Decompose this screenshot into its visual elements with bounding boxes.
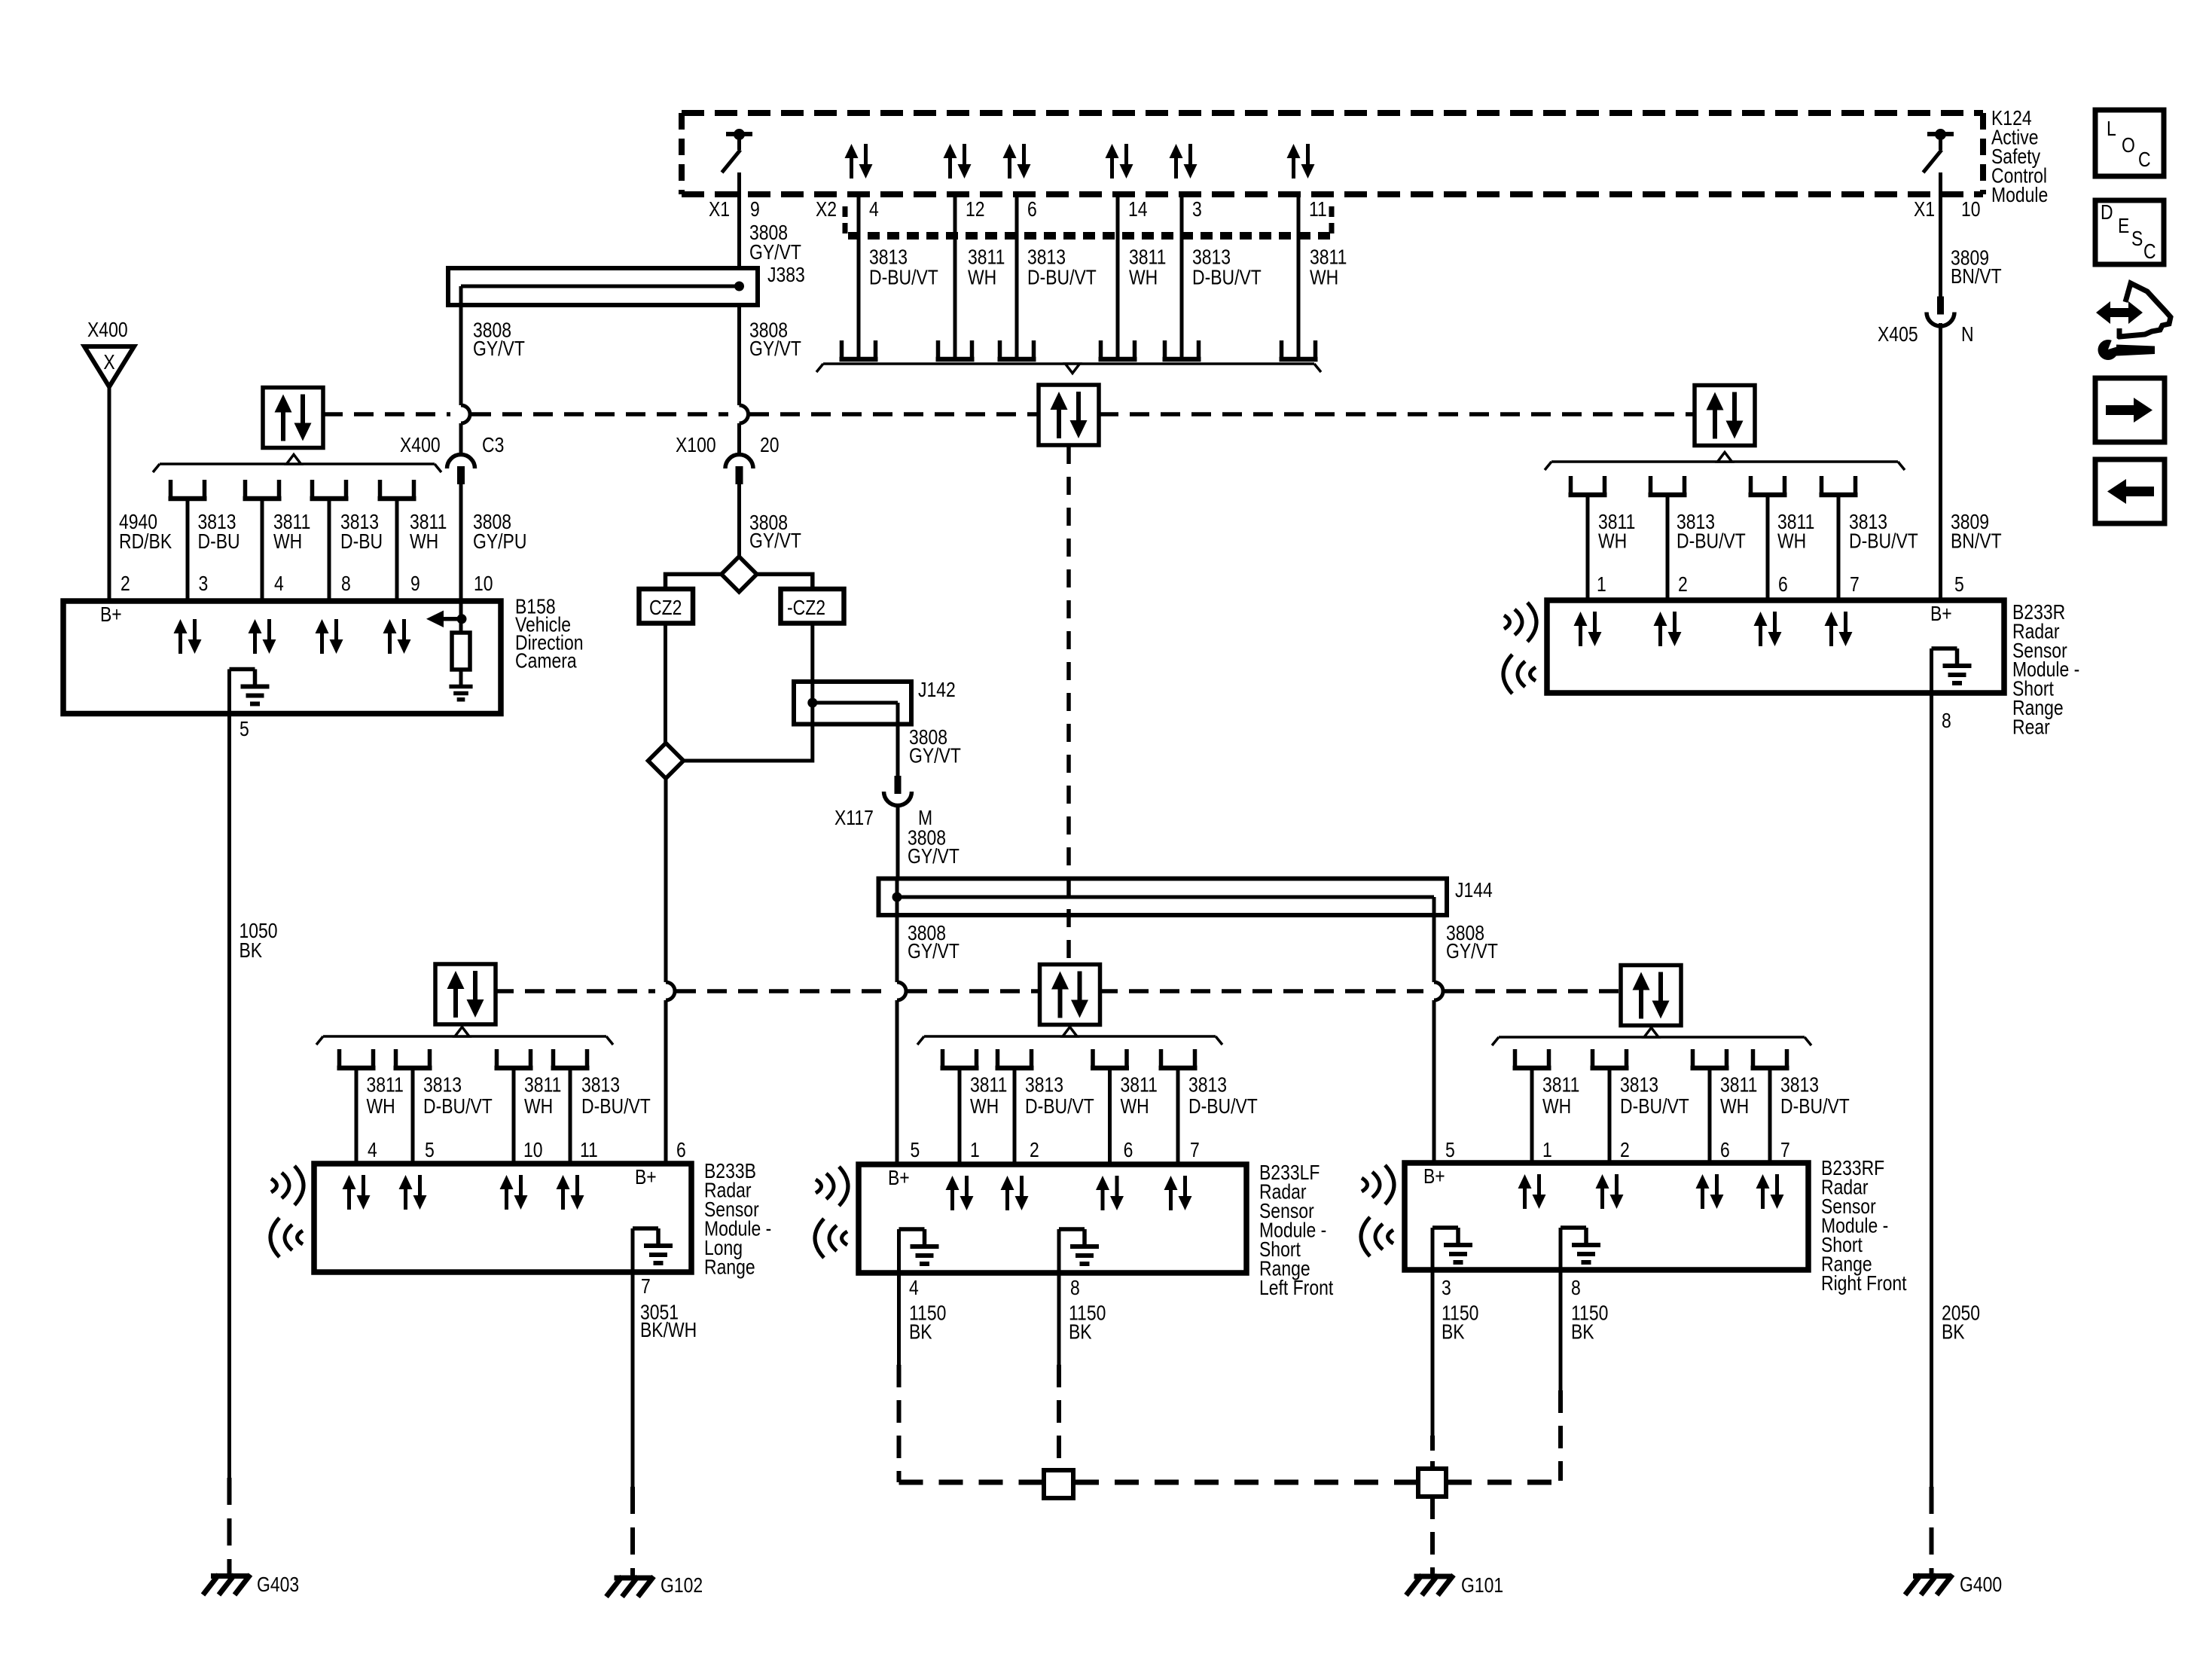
svg-text:GY/VT: GY/VT [909,744,961,767]
svg-text:9: 9 [750,198,760,221]
svg-text:6: 6 [1720,1139,1730,1162]
svg-text:3813: 3813 [1780,1073,1819,1097]
terminal post [1649,476,1653,495]
svg-text:3813: 3813 [1025,1073,1063,1097]
wire to B233LF [958,1068,962,1164]
svg-text:GY/VT: GY/VT [1446,940,1498,963]
wire B233R pin8 2050 BK [1930,693,1933,1487]
svg-text:D-BU/VT: D-BU/VT [423,1095,493,1118]
svg-text:G102: G102 [661,1574,703,1597]
svg-text:3: 3 [1442,1277,1451,1300]
svg-text:GY/VT: GY/VT [749,529,801,553]
svg-text:BK: BK [909,1320,932,1344]
serial data arrows inside K124 [845,144,859,158]
svg-text:7: 7 [1780,1139,1790,1162]
brace B233B harness [323,1035,606,1038]
wire to B233B [512,1068,516,1164]
svg-text:BK: BK [240,939,263,963]
svg-text:J144: J144 [1455,879,1493,902]
terminal post [337,1049,342,1068]
svg-text:Module: Module [1991,184,2048,207]
wire X1-10 to X405 3809 BN/VT [1939,172,1942,297]
svg-text:Rear: Rear [2012,716,2050,739]
svg-text:1: 1 [970,1139,980,1162]
svg-text:WH: WH [1720,1095,1749,1118]
svg-text:3813: 3813 [1620,1073,1658,1097]
svg-text:3811: 3811 [524,1073,561,1097]
splice pack J144 [879,879,1448,916]
wire B233LF pin4 1150 BK [897,1273,901,1365]
terminal post [1751,1049,1756,1068]
B233LF radar waves icon [816,1179,822,1193]
svg-text:E: E [2118,215,2129,238]
svg-text:CZ2: CZ2 [649,597,682,620]
wire to B158 [186,499,190,601]
svg-text:BK: BK [1942,1320,1965,1344]
svg-text:X: X [103,351,114,374]
serial data dashed line top left segment [323,412,450,417]
svg-text:8: 8 [1942,709,1951,733]
svg-text:WH: WH [367,1095,395,1118]
terminal post [936,340,941,359]
svg-text:7: 7 [1850,573,1860,597]
svg-text:D-BU/VT: D-BU/VT [1677,529,1746,553]
serial data symbol box (center, X2 net) [1039,385,1099,445]
svg-text:GY/VT: GY/VT [473,337,525,361]
svg-text:6: 6 [676,1139,686,1162]
svg-text:C: C [2138,148,2151,172]
svg-text:D-BU: D-BU [340,530,383,554]
connector -CZ2 [781,589,844,624]
svg-text:8: 8 [1070,1277,1080,1300]
terminal post [840,340,844,359]
B158 internal ground pin 5 [230,667,255,672]
radar module B233LF box [859,1164,1246,1273]
wire to B233RF [1530,1068,1534,1163]
serial data symbol box B233LF [1040,965,1100,1025]
svg-text:3811: 3811 [367,1073,404,1097]
DESC icon box [2095,200,2164,264]
wire to B158 [261,499,264,601]
svg-text:BK: BK [1571,1320,1594,1344]
brace B158 harness [160,462,435,465]
terminal post [551,1049,556,1068]
svg-text:1: 1 [1597,573,1606,597]
wire to B233RF [1768,1068,1772,1163]
svg-text:D-BU/VT: D-BU/VT [1780,1095,1850,1118]
switch X1-9 inside K124 [726,132,752,136]
svg-text:J383: J383 [767,264,805,287]
svg-text:X117: X117 [834,807,874,830]
B233LF serial arrows [946,1176,960,1190]
svg-text:2: 2 [121,572,130,596]
wire -CZ2 to J142 [810,624,814,682]
B233LF internal ground pin 4 [899,1227,925,1231]
svg-text:B+: B+ [1930,603,1952,626]
terminal post [1099,340,1103,359]
serial data symbol box (left, B158 net) [263,388,323,448]
wire to B233R [1586,495,1590,600]
svg-text:10: 10 [474,572,493,596]
terminal post [941,1049,945,1068]
svg-text:WH: WH [1129,266,1158,289]
wire to B158 [395,499,399,601]
camera module B158 box [63,601,501,714]
connector X100 pin 20 [725,455,753,468]
svg-text:Left Front: Left Front [1259,1277,1333,1300]
svg-text:BN/VT: BN/VT [1951,529,2002,553]
svg-text:B+: B+ [635,1166,657,1189]
svg-text:D-BU/VT: D-BU/VT [1192,266,1262,289]
svg-text:5: 5 [240,718,249,741]
splice diamond lower [648,743,684,779]
radar module B233RF box [1405,1163,1808,1270]
svg-text:WH: WH [1310,266,1338,289]
connector X405 N [1937,297,1944,315]
terminal post [1749,476,1753,495]
radar module B233R box [1547,600,2004,693]
terminal post [243,480,248,499]
svg-text:Range: Range [704,1256,755,1279]
wire from K124 X2 [857,196,861,359]
wire X117 to J144 3808 GY/VT [896,806,900,879]
svg-text:L: L [2107,117,2116,141]
terminal post [1091,1049,1095,1068]
svg-text:GY/PU: GY/PU [473,530,526,554]
svg-text:WH: WH [273,530,302,554]
wire to B233R [1837,495,1841,600]
serial data symbol box B233B [435,964,496,1024]
svg-text:3811: 3811 [1720,1073,1757,1097]
wire to B233R [1766,495,1770,600]
wire J144 right to B233RF 3808 GY/VT [1432,915,1436,982]
svg-text:3: 3 [1192,198,1202,221]
svg-text:D-BU/VT: D-BU/VT [869,266,938,289]
svg-text:3813: 3813 [581,1073,620,1097]
svg-text:GY/VT: GY/VT [749,337,801,361]
brace B233RF harness [1499,1036,1805,1039]
terminal post [169,480,173,499]
B233RF internal ground pin 3 [1432,1225,1458,1230]
B233RF internal ground pin 8 [1561,1225,1586,1230]
B233B serial arrows [343,1175,356,1189]
svg-text:J142: J142 [918,679,956,702]
svg-text:GY/VT: GY/VT [908,845,960,868]
vertical dashed serial line center [1066,446,1071,965]
B233R radar waves icon [1504,615,1510,629]
junction square (LF pin 8) [1044,1470,1073,1498]
svg-text:X1: X1 [709,198,730,221]
svg-text:7: 7 [641,1275,651,1298]
B158 terminating resistor branch [459,601,463,619]
wire to B233B [355,1068,358,1164]
terminal post [1591,1049,1595,1068]
wire B233LF pin8 1150 BK [1057,1273,1061,1365]
wire CZ2 down [664,624,667,744]
wire X1-9 to J383 3808 GY/VT [737,172,741,268]
terminal post [996,1049,1000,1068]
svg-text:D-BU/VT: D-BU/VT [1188,1095,1258,1118]
svg-text:8: 8 [341,572,351,596]
svg-text:WH: WH [1542,1095,1571,1118]
svg-text:GY/VT: GY/VT [908,940,960,963]
wire to B233B [411,1068,415,1164]
wire B233RF pin8 1150 BK [1559,1270,1563,1390]
svg-text:6: 6 [1778,573,1788,597]
serial data dashed line bottom right segment [1098,989,1423,993]
splice pack J142 [794,682,911,725]
wire from K124 X2 [953,196,957,359]
serial data symbol box (right, B233R net) [1695,386,1755,446]
terminal post [1691,1049,1695,1068]
svg-text:G400: G400 [1960,1573,2002,1597]
svg-text:12: 12 [966,198,985,221]
svg-text:X2: X2 [816,198,837,221]
wire B158 pin5 1050 BK [227,714,231,1478]
svg-text:2: 2 [1620,1139,1630,1162]
svg-text:3813: 3813 [1188,1073,1227,1097]
B233R internal ground pin 8 [1932,646,1957,651]
switch X1-10 inside K124 [1927,132,1954,136]
svg-text:9: 9 [410,572,420,596]
terminal post [1163,340,1167,359]
dashed wire to G101 [1430,1497,1435,1574]
svg-text:5: 5 [1954,573,1964,597]
wire from K124 X2 [1297,196,1301,359]
ground G101 [1414,1574,1451,1579]
brace B233LF harness [924,1035,1216,1038]
wire from K124 X2 [1180,196,1184,359]
terminal post [1820,476,1824,495]
svg-text:-CZ2: -CZ2 [787,597,825,620]
radar module B233B box [314,1164,691,1272]
svg-text:3811: 3811 [970,1073,1007,1097]
B158 serial arrows [174,619,188,633]
wire X405 to B233R 3809 BN/VT [1939,323,1942,600]
svg-text:2: 2 [1678,573,1688,597]
svg-text:4: 4 [368,1139,377,1162]
connector X117 M [895,776,902,794]
svg-text:X405: X405 [1878,323,1918,346]
svg-text:3: 3 [199,572,209,596]
wire J142 pass-through to lower diamond [684,725,813,761]
wire to CZ2 [666,574,722,589]
brace B233R harness [1551,460,1898,463]
wire to B233RF [1608,1068,1612,1163]
LOC icon box [2095,110,2164,176]
terminal post [1513,1049,1518,1068]
svg-text:8: 8 [1571,1277,1581,1300]
resistor in B158 [459,619,463,633]
svg-text:RD/BK: RD/BK [119,530,172,554]
svg-text:B+: B+ [888,1167,910,1190]
svg-text:10: 10 [523,1139,543,1162]
ground G403 [211,1573,248,1579]
wire to B158 [328,499,331,601]
svg-text:D-BU/VT: D-BU/VT [1620,1095,1689,1118]
svg-text:B+: B+ [100,603,122,627]
wire J383 to X100 3808 GY/VT [737,305,741,405]
wire antenna to B158 4940 RD/BK [108,387,111,602]
svg-text:D-BU/VT: D-BU/VT [581,1095,651,1118]
wire J383 left drop 3808 GY/VT [459,286,463,405]
connector X400 C3 [447,455,475,468]
module K124 Active Safety Control Module dashed box [682,110,1983,116]
terminal post [1280,340,1284,359]
svg-text:1: 1 [1542,1139,1552,1162]
svg-text:11: 11 [1309,198,1327,221]
svg-text:C: C [2143,240,2156,264]
svg-text:D-BU/VT: D-BU/VT [1027,266,1097,289]
svg-text:10: 10 [1961,198,1981,221]
svg-text:D-BU/VT: D-BU/VT [1849,529,1918,553]
svg-text:4: 4 [909,1277,919,1300]
svg-text:BK: BK [1442,1320,1465,1344]
svg-text:O: O [2122,134,2135,157]
wire C3 to B158 3808 GY/PU [459,484,463,601]
terminal post [998,340,1002,359]
svg-text:N: N [1961,323,1974,346]
wire to -CZ2 [757,574,813,589]
wire X100 to splice 3808 GY/VT [737,484,741,557]
wire J144 left to B233LF 3808 GY/VT [895,915,899,982]
svg-text:3813: 3813 [423,1073,462,1097]
splice diamond upper [722,557,757,592]
wire to B233B [569,1068,572,1164]
ground G400 [1913,1573,1950,1579]
svg-text:2: 2 [1030,1139,1039,1162]
svg-text:BK: BK [1069,1320,1092,1344]
svg-text:4: 4 [274,572,284,596]
serial data symbol box B233RF [1621,966,1681,1026]
wire to B233RF [1708,1068,1712,1163]
ground bus dashed line [899,1480,1043,1485]
vehicle communication icon [2096,301,2143,324]
svg-text:14: 14 [1128,198,1148,221]
svg-text:WH: WH [410,530,438,554]
ground symbol in B158 [449,685,472,689]
svg-text:Camera: Camera [515,649,577,673]
svg-text:3811: 3811 [1121,1073,1158,1097]
svg-text:5: 5 [911,1139,920,1162]
ground G102 [615,1576,651,1581]
brace X2 harness [823,362,1314,365]
terminal post [495,1049,499,1068]
svg-text:WH: WH [970,1095,999,1118]
wire from K124 X2 [1015,196,1019,359]
terminal post [394,1049,398,1068]
svg-text:G101: G101 [1461,1574,1503,1597]
arrow left icon box [2095,459,2165,523]
svg-text:WH: WH [524,1095,553,1118]
wire lower diamond to B233B [664,779,668,983]
wire to B233LF [1013,1068,1017,1164]
svg-text:BN/VT: BN/VT [1951,265,2002,288]
svg-text:6: 6 [1124,1139,1133,1162]
svg-text:WH: WH [968,266,996,289]
svg-text:GY/VT: GY/VT [749,241,801,264]
svg-text:BK/WH: BK/WH [640,1319,697,1342]
svg-text:G403: G403 [257,1573,299,1597]
svg-text:X400: X400 [87,319,128,342]
svg-text:3811: 3811 [1542,1073,1579,1097]
wire B233RF pin3 1150 BK [1431,1270,1435,1437]
svg-text:11: 11 [580,1139,598,1162]
B233LF internal ground pin 8 [1059,1227,1085,1231]
connector CZ2 [639,589,694,624]
B233RF serial arrows [1518,1174,1532,1189]
svg-text:D: D [2101,201,2113,224]
wire to B233LF [1108,1068,1112,1164]
terminal post [1159,1049,1164,1068]
svg-text:D-BU: D-BU [198,530,240,554]
svg-text:5: 5 [425,1139,435,1162]
B233B radar waves icon [271,1179,277,1192]
wire to B233R [1666,495,1670,600]
B233B internal ground pin 7 [633,1226,658,1231]
svg-text:WH: WH [1777,529,1806,553]
svg-text:X400: X400 [400,434,441,457]
svg-text:5: 5 [1445,1139,1455,1162]
serial data dashed line top right segment [1099,412,1695,417]
svg-text:X1: X1 [1914,198,1935,221]
junction square G101 [1418,1469,1446,1497]
B233RF radar waves icon [1362,1178,1368,1192]
svg-text:C3: C3 [482,434,504,457]
wire to B233LF [1176,1068,1180,1164]
serial data dashed line bottom left segment [494,989,655,993]
wire J142 to X117 3808 GY/VT [896,725,900,777]
svg-text:X100: X100 [676,434,716,457]
svg-text:WH: WH [1598,529,1627,553]
svg-text:S: S [2131,227,2143,251]
svg-text:7: 7 [1190,1139,1200,1162]
splice pack J383 [448,268,758,305]
svg-text:Right Front: Right Front [1821,1272,1907,1295]
terminal post [1569,476,1573,495]
terminal post [310,480,315,499]
svg-text:6: 6 [1027,198,1037,221]
svg-text:B+: B+ [1423,1165,1445,1189]
B233R serial arrows [1574,612,1588,626]
terminal post [378,480,383,499]
wire B233B pin7 3051 BK/WH [631,1272,635,1487]
svg-text:20: 20 [760,434,780,457]
arrow right icon box [2095,378,2165,442]
svg-text:D-BU/VT: D-BU/VT [1025,1095,1094,1118]
svg-text:4: 4 [869,198,879,221]
svg-text:WH: WH [1121,1095,1149,1118]
wire from K124 X2 [1116,196,1120,359]
